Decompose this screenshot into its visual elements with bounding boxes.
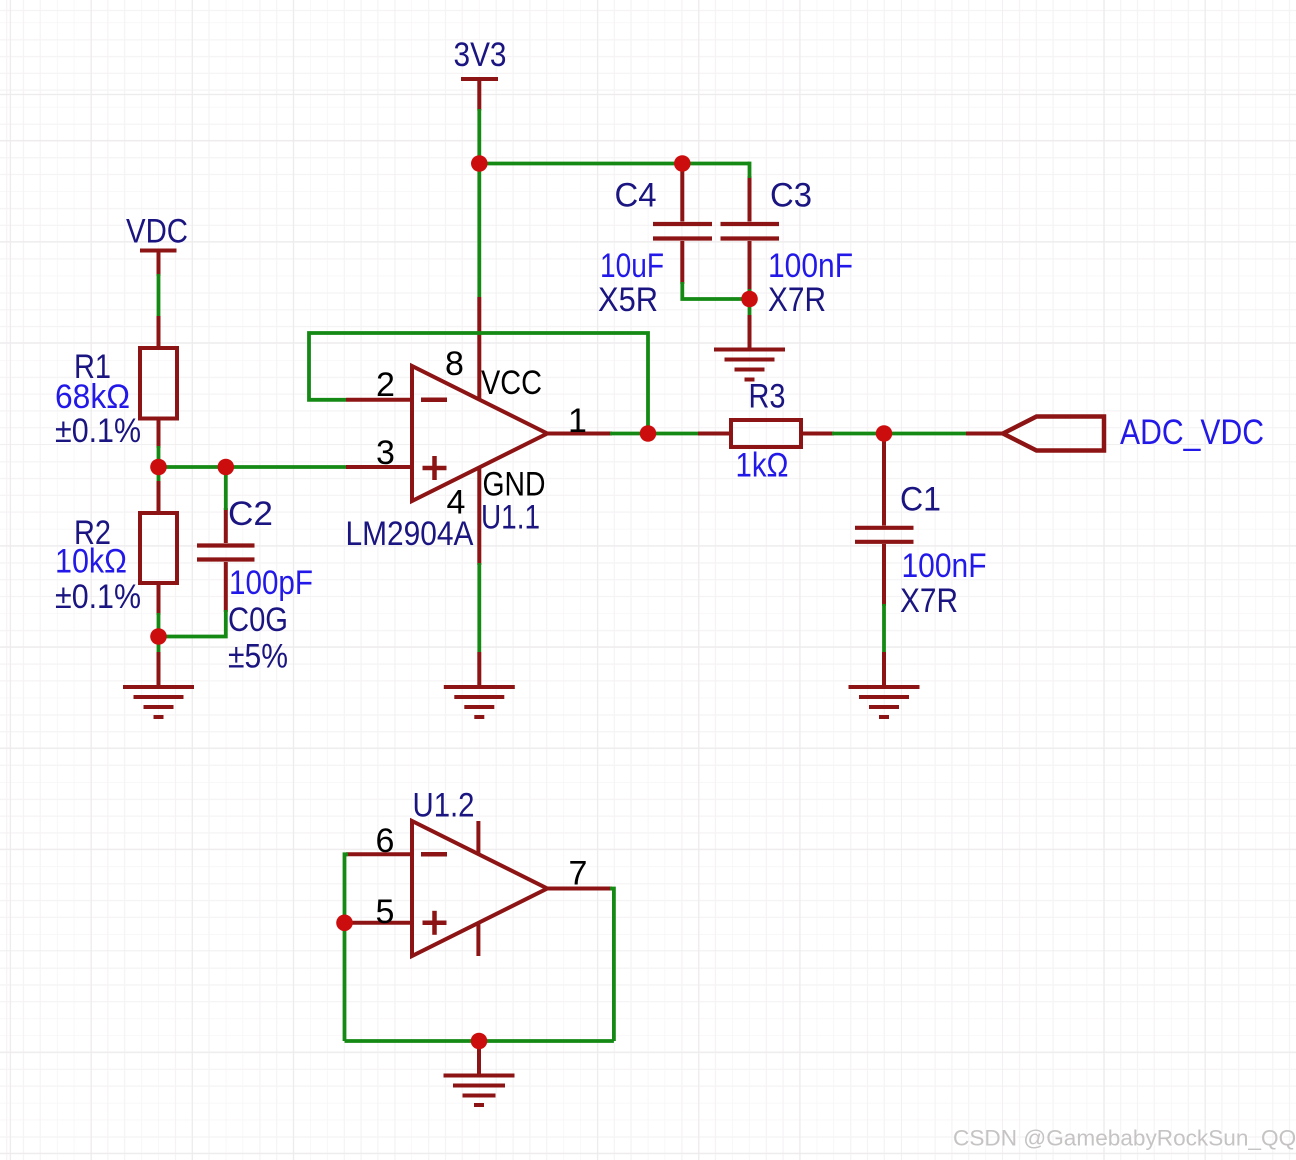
wire node A2 to C2 — [224, 467, 228, 510]
svg-text:8: 8 — [445, 345, 464, 383]
svg-text:100nF: 100nF — [902, 547, 987, 585]
stub pin VCC U1.2 — [476, 821, 480, 854]
power symbol 3V3 — [461, 79, 498, 111]
wire VDC to R1 — [157, 274, 161, 316]
sheet pin lead — [966, 432, 1003, 436]
op-amp U1.1 — [412, 366, 547, 501]
wire R2 to node B — [157, 613, 161, 637]
wire node E to ground — [748, 299, 752, 315]
wire node A to R2 — [157, 467, 161, 482]
pin 1 — [547, 432, 612, 436]
svg-text:7: 7 — [569, 855, 588, 893]
junction node A2 — [218, 459, 235, 476]
wire C3 to node E — [748, 289, 752, 299]
svg-text:C3: C3 — [770, 177, 812, 215]
svg-text:X5R: X5R — [598, 281, 658, 319]
wire node A to op-amp pin 3 — [159, 465, 347, 469]
wire node I to ground — [477, 1041, 481, 1049]
ground below R2 — [123, 652, 194, 717]
junction node I — [471, 1033, 488, 1050]
wire rail corner to C3 — [748, 162, 752, 178]
wire C2 to node B — [159, 610, 226, 637]
ground below C3 — [714, 315, 785, 380]
svg-text:100pF: 100pF — [229, 564, 313, 602]
svg-text:5: 5 — [376, 893, 395, 931]
wire bottom rail U1.2 — [345, 1039, 614, 1043]
svg-text:10kΩ: 10kΩ — [55, 543, 127, 581]
wire node C to C3 (3V3 rail) — [479, 162, 749, 166]
svg-text:±5%: ±5% — [228, 638, 288, 676]
pin 2 — [346, 398, 412, 402]
capacitor C2 — [197, 508, 255, 612]
wire 3V3 to node C — [477, 109, 481, 164]
junction node B — [150, 628, 167, 645]
op-amp U1.2 — [412, 821, 547, 956]
svg-text:100nF: 100nF — [768, 247, 853, 285]
wire node B to ground — [157, 637, 161, 653]
pin 3 — [346, 465, 412, 469]
resistor R1 — [140, 316, 177, 448]
capacitor C4 — [653, 170, 712, 284]
svg-text:VCC: VCC — [481, 364, 542, 402]
svg-text:C0G: C0G — [228, 601, 288, 639]
wire R1 to node A — [157, 446, 161, 467]
ground below U1.2 — [444, 1049, 515, 1105]
junction node D — [674, 155, 691, 172]
junction node F — [640, 425, 657, 442]
svg-text:±0.1%: ±0.1% — [55, 578, 141, 616]
wire pin 7 down — [610, 889, 614, 1042]
svg-text:10uF: 10uF — [600, 247, 664, 285]
ground below C1 — [849, 652, 920, 717]
feedback wire output to pin 2 — [309, 333, 648, 434]
svg-text:3V3: 3V3 — [454, 36, 507, 74]
svg-text:U1.2: U1.2 — [413, 787, 475, 825]
wire node C to op-amp pin 8 — [477, 164, 481, 298]
junction node G — [876, 425, 893, 442]
resistor R3 — [698, 420, 834, 447]
pin 5 — [346, 921, 412, 925]
wire R3 to node G — [832, 432, 966, 436]
power symbol VDC — [140, 251, 177, 277]
wire C4 bottom rail — [682, 282, 749, 299]
svg-text:C1: C1 — [900, 481, 941, 519]
svg-text:U1.1: U1.1 — [481, 499, 540, 537]
resistor R2 — [140, 481, 177, 615]
capacitor C3 — [721, 176, 780, 291]
stub pin GND U1.2 — [476, 923, 480, 956]
svg-text:R3: R3 — [749, 378, 786, 416]
svg-text:X7R: X7R — [900, 582, 958, 620]
svg-text:ADC_VDC: ADC_VDC — [1120, 413, 1264, 452]
wire pin 4 to ground — [477, 563, 481, 652]
junction node C — [471, 155, 488, 172]
svg-text:VDC: VDC — [126, 213, 188, 251]
junction node A — [150, 459, 167, 476]
svg-text:±0.1%: ±0.1% — [55, 412, 141, 450]
junction node E — [741, 291, 758, 308]
wire C1 to ground — [882, 604, 886, 652]
hierarchical label ADC_VDC — [1003, 417, 1104, 451]
svg-text:LM2904A: LM2904A — [346, 515, 474, 553]
svg-text:CSDN @GamebabyRockSun_QQ: CSDN @GamebabyRockSun_QQ — [953, 1126, 1296, 1151]
junction node H — [336, 915, 353, 932]
svg-text:C2: C2 — [228, 495, 273, 533]
svg-text:3: 3 — [376, 434, 395, 472]
svg-text:6: 6 — [376, 822, 395, 860]
capacitor C1 — [855, 441, 914, 606]
svg-text:2: 2 — [376, 366, 395, 404]
svg-text:1kΩ: 1kΩ — [736, 447, 789, 485]
pin 6 — [346, 852, 412, 856]
pin 4 — [477, 467, 481, 565]
svg-text:1: 1 — [568, 402, 587, 440]
pin 8 — [477, 297, 481, 400]
wire pin 6 loop to pin 5 — [345, 854, 349, 1041]
wire pin 1 to node F — [610, 432, 698, 436]
ground below U1.1 — [444, 652, 515, 717]
svg-text:68kΩ: 68kΩ — [55, 378, 130, 416]
svg-text:X7R: X7R — [768, 281, 826, 319]
svg-text:C4: C4 — [615, 177, 657, 215]
pin 7 — [547, 887, 612, 891]
